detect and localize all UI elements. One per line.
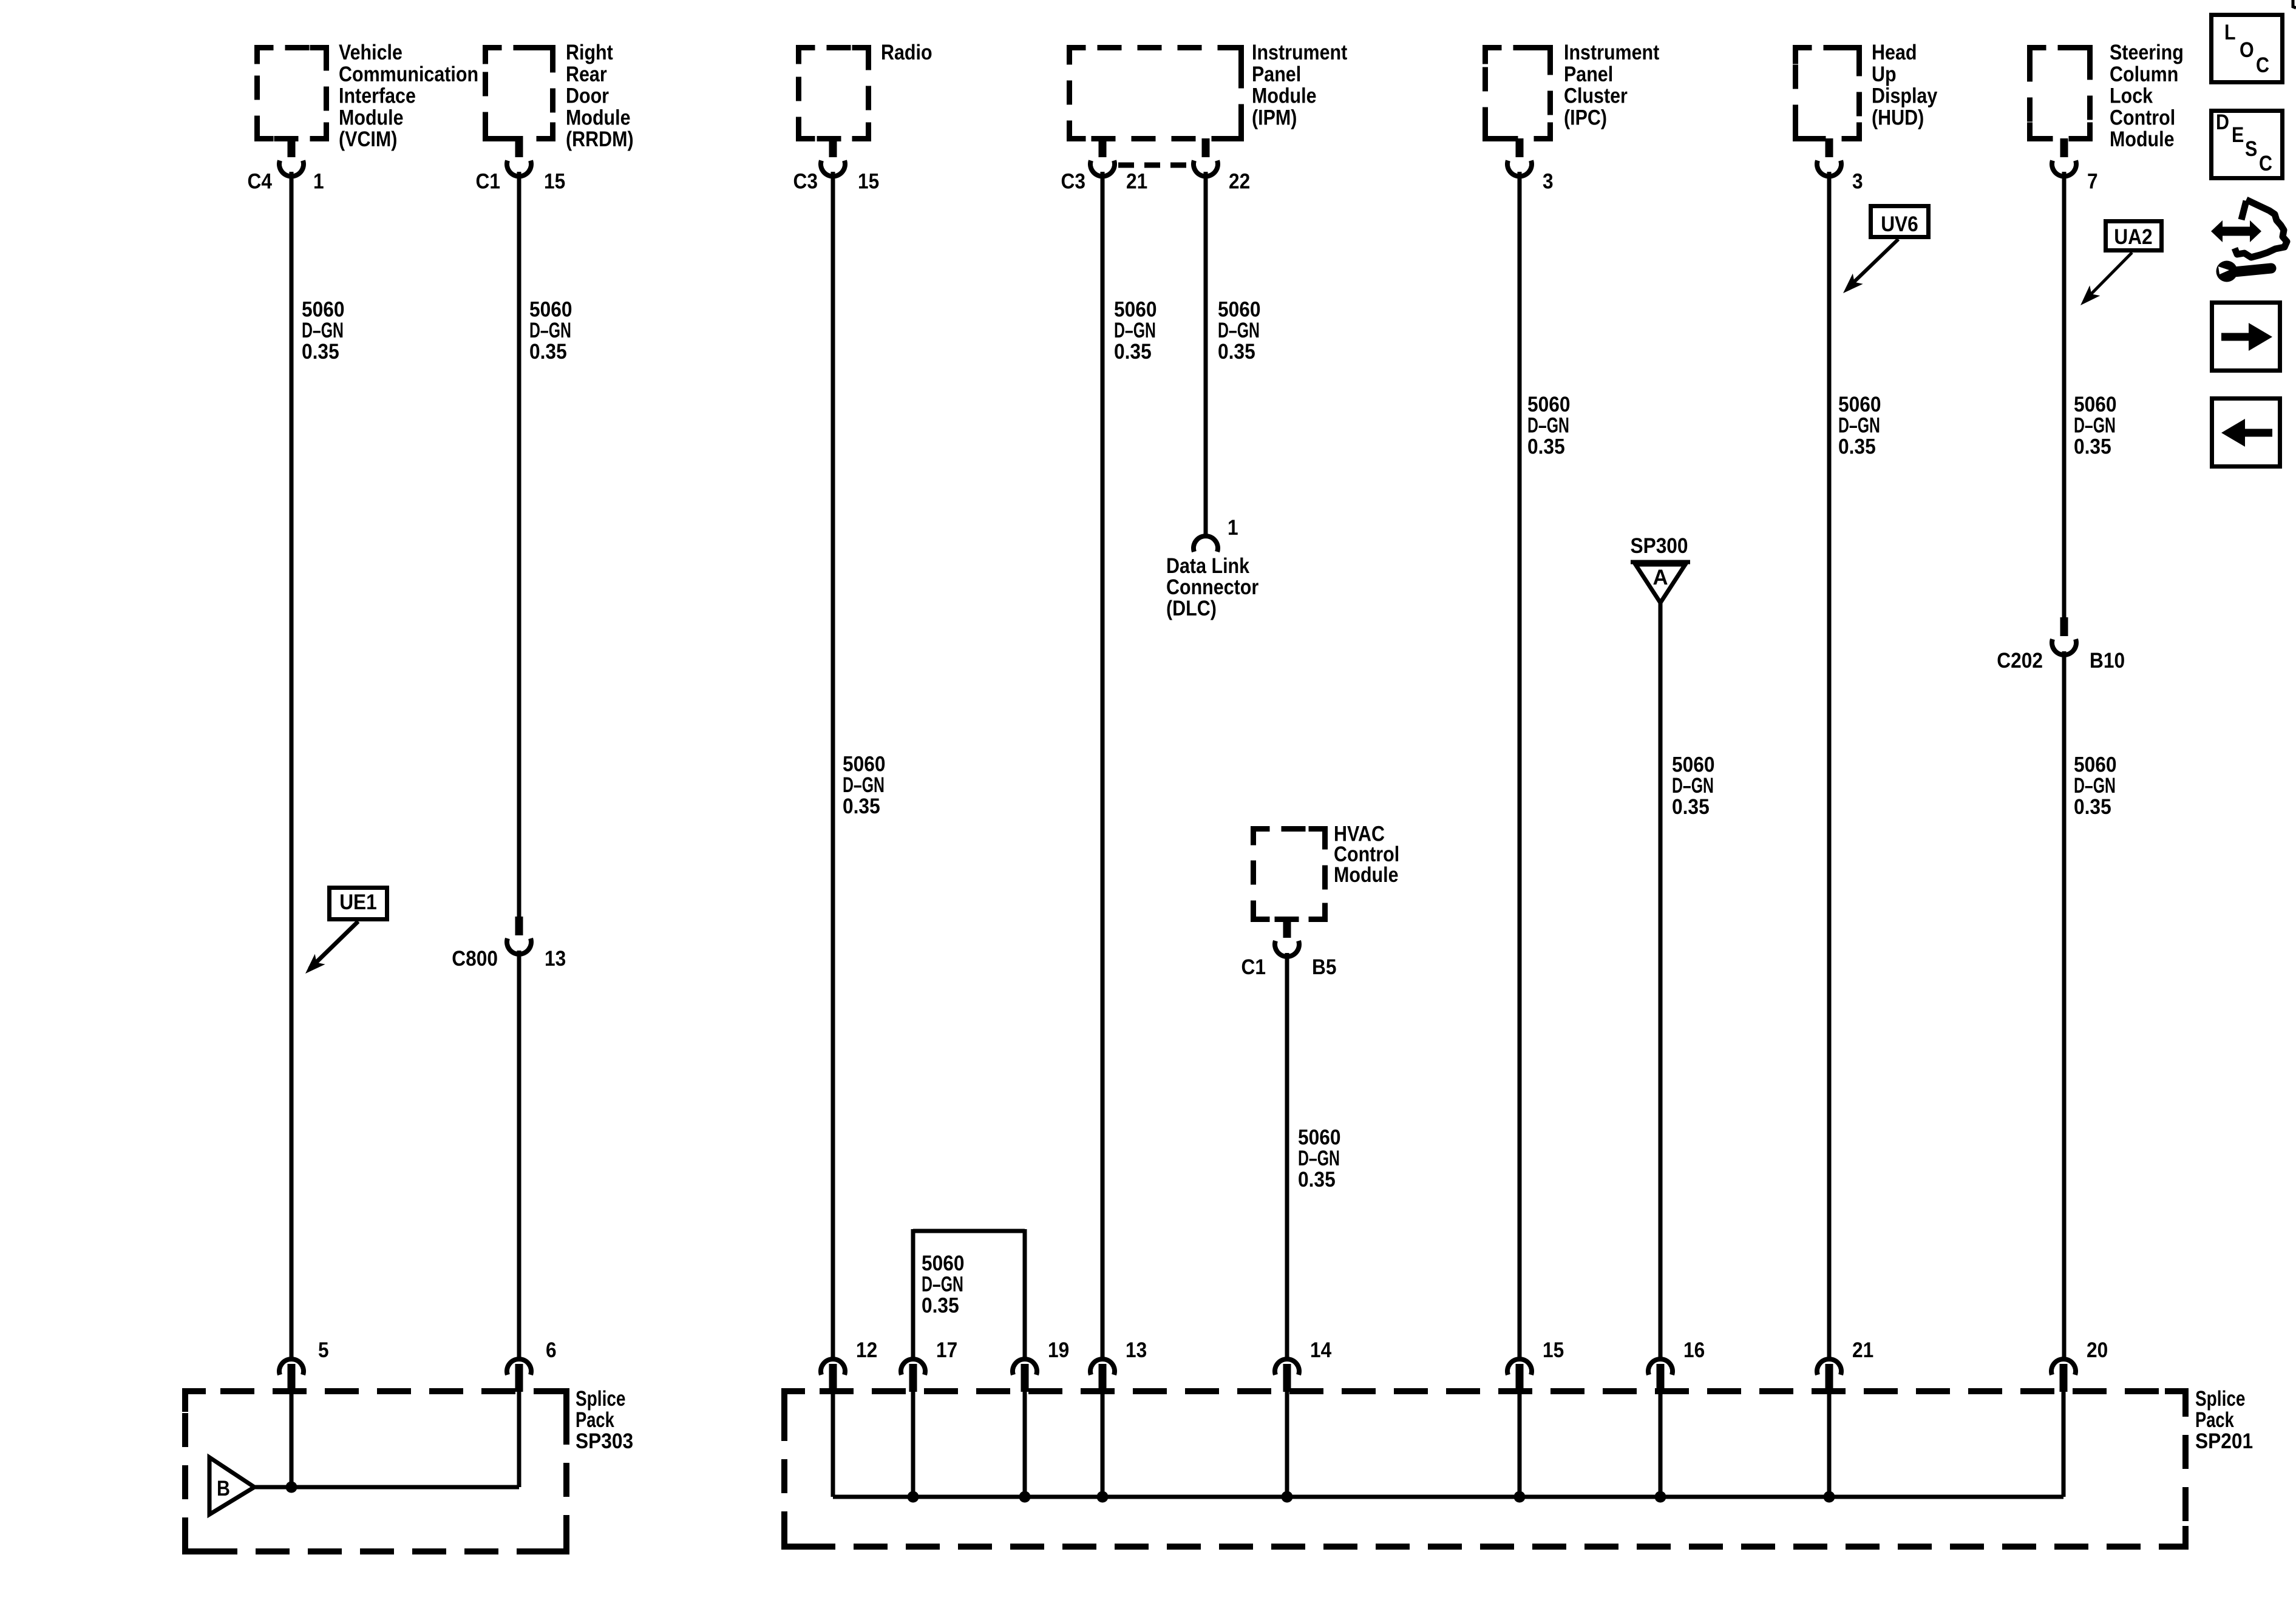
wrench notch: [2218, 266, 2229, 274]
connector stub IPM 22: [1202, 138, 1210, 157]
connector stub SCLCM 7: [2060, 138, 2068, 157]
svg-text:0.35: 0.35: [843, 795, 880, 818]
arrow UV6: [1847, 239, 1898, 288]
connector stub SP201 pin 17: [909, 1364, 917, 1392]
junction SP201 bus at x=3013: [1824, 1491, 1835, 1503]
svg-text:5060: 5060: [1114, 298, 1157, 322]
module box Radio (dashed): [799, 48, 869, 139]
wire Radio to SP201 pin 12: [831, 172, 835, 1358]
double arrow: [2211, 220, 2261, 242]
svg-text:17: 17: [936, 1338, 957, 1362]
svg-text:19: 19: [1048, 1338, 1069, 1362]
svg-text:Pack: Pack: [2195, 1408, 2234, 1432]
svg-text:5060: 5060: [922, 1252, 965, 1275]
svg-text:Splice: Splice: [2195, 1387, 2246, 1411]
module box SCLCM (dashed): [2030, 48, 2090, 139]
svg-text:5060: 5060: [1218, 298, 1261, 322]
svg-text:D–GN: D–GN: [1218, 319, 1260, 342]
svg-text:0.35: 0.35: [1672, 795, 1710, 819]
svg-text:Rear: Rear: [566, 63, 607, 86]
svg-text:C800: C800: [452, 947, 498, 971]
connector stub IPC 3: [1516, 138, 1524, 157]
svg-text:D–GN: D–GN: [1114, 319, 1156, 342]
svg-text:B5: B5: [1312, 955, 1337, 979]
icon box DESC: [2212, 111, 2283, 178]
splice pack SP201 box (dashed): [784, 1391, 2186, 1547]
junction SP201 bus at x=2503: [1514, 1491, 1526, 1503]
page corner mark: [2293, 0, 2296, 8]
connector cup SP303 pin 5: [279, 1359, 304, 1375]
splice bus SP303: [254, 1485, 519, 1490]
connector cup HVAC C1-B5: [1275, 941, 1299, 957]
svg-text:(IPC): (IPC): [1564, 106, 1607, 129]
svg-text:7: 7: [2087, 170, 2098, 194]
splice SP300 triangle: [1631, 560, 1690, 564]
svg-text:0.35: 0.35: [2074, 795, 2111, 819]
svg-text:5060: 5060: [1527, 393, 1571, 416]
svg-text:20: 20: [2087, 1338, 2108, 1362]
svg-text:D–GN: D–GN: [1298, 1147, 1340, 1170]
wire IPC to SP201 pin 15: [1518, 172, 1522, 1358]
svg-text:E: E: [2232, 123, 2244, 147]
svg-text:C1: C1: [1241, 955, 1266, 979]
svg-text:D–GN: D–GN: [2074, 774, 2116, 798]
svg-text:5060: 5060: [843, 753, 886, 776]
connector stub VCIM C4-1: [288, 138, 296, 157]
arrowhead UA2: [2080, 285, 2100, 305]
svg-text:Connector: Connector: [1166, 575, 1259, 599]
module box IPC (dashed): [1486, 48, 1550, 139]
connector cup IPC 3: [1507, 161, 1532, 177]
svg-text:Module: Module: [1252, 84, 1317, 108]
connector cup Radio C3-15: [821, 161, 845, 177]
svg-text:(VCIM): (VCIM): [339, 127, 397, 151]
svg-text:5060: 5060: [1298, 1126, 1341, 1150]
svg-text:15: 15: [544, 170, 565, 194]
connector cup SP201 pin 21: [1817, 1359, 1841, 1375]
svg-text:0.35: 0.35: [1218, 340, 1255, 364]
connector stub RRDM C1-15: [515, 138, 523, 157]
svg-text:Communication: Communication: [339, 63, 478, 86]
connector cup C800: [507, 938, 531, 954]
svg-text:15: 15: [858, 170, 879, 194]
module box VCIM (dashed): [257, 48, 327, 139]
wire C202 to SP201 pin 20: [2062, 651, 2067, 1358]
svg-text:Column: Column: [2110, 63, 2178, 86]
svg-text:0.35: 0.35: [1298, 1168, 1336, 1192]
callout box UE1: [330, 888, 387, 920]
svg-text:21: 21: [1852, 1338, 1873, 1362]
connector stub SP201 pin 20: [2060, 1364, 2068, 1392]
connector cup IPM C3-21: [1090, 161, 1115, 177]
icon box LOC: [2212, 15, 2283, 83]
svg-text:D–GN: D–GN: [1838, 414, 1880, 438]
svg-text:Interface: Interface: [339, 84, 416, 108]
svg-text:0.35: 0.35: [1838, 435, 1876, 458]
svg-text:Panel: Panel: [1252, 63, 1301, 86]
svg-text:15: 15: [1543, 1338, 1564, 1362]
svg-text:SP201: SP201: [2195, 1429, 2253, 1453]
module box HVAC Control Module (dashed): [1254, 829, 1325, 920]
svg-text:0.35: 0.35: [529, 340, 567, 364]
svg-text:13: 13: [545, 947, 566, 971]
svg-text:Control: Control: [2110, 106, 2175, 129]
svg-text:Lock: Lock: [2110, 84, 2153, 108]
wire pin 17 into SP201: [911, 1392, 915, 1497]
connector cup SP201 pin 19: [1013, 1359, 1037, 1375]
svg-text:D–GN: D–GN: [843, 773, 885, 797]
connector stub HVAC C1-B5: [1283, 919, 1291, 938]
wire pin 13 into SP201: [1101, 1392, 1105, 1497]
right arrow: [2221, 323, 2272, 351]
connector stub SP201 pin 15: [1516, 1364, 1524, 1392]
connector cup SP201 pin 15: [1507, 1359, 1532, 1375]
svg-text:(RRDM): (RRDM): [566, 127, 634, 151]
svg-text:5060: 5060: [2074, 753, 2117, 777]
svg-text:B: B: [217, 1477, 230, 1500]
wire pin 21 into SP201: [1827, 1392, 1832, 1497]
svg-text:D–GN: D–GN: [1527, 414, 1569, 438]
junction SP201 bus at x=1688: [1019, 1491, 1031, 1503]
DLC terminal cup: [1194, 536, 1218, 552]
svg-text:(DLC): (DLC): [1166, 597, 1217, 620]
svg-text:Module: Module: [566, 106, 631, 129]
svg-text:6: 6: [546, 1338, 557, 1362]
connector stub IPM C3-21: [1099, 138, 1107, 157]
connector stub SP201 pin 21: [1826, 1364, 1833, 1392]
junction SP201 bus at x=2735: [1655, 1491, 1666, 1503]
module box IPM (dashed): [1070, 48, 1241, 139]
module box RRDM (dashed): [486, 48, 553, 139]
svg-text:5060: 5060: [302, 298, 345, 322]
svg-text:13: 13: [1126, 1338, 1147, 1362]
wire pin 14 into SP201: [1285, 1392, 1289, 1497]
callout box UV6: [1871, 206, 1929, 237]
svg-text:SP300: SP300: [1630, 534, 1688, 558]
wire loop right to pin 19: [1023, 1229, 1027, 1358]
svg-text:5060: 5060: [529, 298, 572, 322]
svg-text:Display: Display: [1872, 84, 1938, 108]
svg-text:UV6: UV6: [1881, 212, 1918, 236]
splice pack SP303 box (dashed): [185, 1391, 566, 1551]
svg-text:SP303: SP303: [576, 1429, 633, 1453]
svg-text:Up: Up: [1872, 63, 1897, 86]
callout box UA2: [2106, 222, 2162, 251]
svg-text:C3: C3: [1061, 170, 1086, 194]
svg-text:UA2: UA2: [2114, 225, 2152, 249]
svg-text:5060: 5060: [2074, 393, 2117, 416]
svg-text:0.35: 0.35: [2074, 435, 2111, 458]
svg-text:D–GN: D–GN: [529, 319, 571, 342]
connector cup SP201 pin 20: [2051, 1359, 2076, 1375]
connector stub C800: [515, 917, 523, 935]
wire pin 19 into SP201: [1023, 1392, 1027, 1497]
junction SP201 bus at x=1816: [1097, 1491, 1109, 1503]
arrow UE1: [310, 921, 358, 969]
svg-text:Panel: Panel: [1564, 63, 1613, 86]
junction SP303 bus at wire 5: [286, 1482, 297, 1493]
connector stub SP201 pin 16: [1657, 1364, 1665, 1392]
wire SCLCM to C202: [2062, 172, 2067, 617]
junction SP201 bus at x=1504: [908, 1491, 919, 1503]
svg-text:Splice: Splice: [576, 1387, 626, 1411]
connector stub C202: [2060, 617, 2068, 636]
connector stub SP201 pin 14: [1283, 1364, 1291, 1392]
svg-text:UE1: UE1: [339, 890, 377, 914]
svg-text:21: 21: [1126, 170, 1147, 194]
wire RRDM to C800: [517, 172, 521, 917]
svg-text:5060: 5060: [1672, 753, 1715, 777]
svg-text:C4: C4: [248, 170, 273, 194]
svg-text:22: 22: [1229, 170, 1250, 194]
svg-text:Right: Right: [566, 41, 613, 64]
icon hand with double arrow and wrench: [2235, 200, 2287, 257]
connector cup HUD 3: [1817, 161, 1841, 177]
wire C800 to SP303 pin 6: [517, 951, 521, 1358]
connector cup SP303 pin 6: [507, 1359, 531, 1375]
connector cup SP201 pin 16: [1648, 1359, 1673, 1375]
svg-text:Head: Head: [1872, 41, 1917, 64]
svg-text:C: C: [2256, 53, 2269, 77]
wire pin 5 into SP303: [290, 1392, 294, 1487]
connector stub SP201 pin 12: [829, 1364, 837, 1392]
svg-text:1: 1: [313, 170, 324, 194]
svg-text:A: A: [1652, 566, 1668, 589]
wire SP300 to SP201 pin 16: [1659, 603, 1663, 1358]
svg-text:O: O: [2240, 38, 2254, 62]
connector stub SP303 pin 5: [288, 1364, 296, 1392]
wire pin 6 into SP303: [517, 1392, 521, 1487]
wire loop left to pin 17: [911, 1229, 915, 1358]
svg-text:0.35: 0.35: [302, 340, 339, 364]
connector stub Radio C3-15: [829, 138, 837, 157]
wire loop top 17-19: [913, 1229, 1025, 1233]
wire IPM 21 to SP201 pin 13: [1101, 172, 1105, 1358]
svg-text:16: 16: [1683, 1338, 1705, 1362]
connector stub HUD 3: [1826, 138, 1833, 157]
connector stub SP303 pin 6: [515, 1364, 523, 1392]
svg-text:B10: B10: [2090, 649, 2125, 673]
triangle B (SP303 splice): [209, 1457, 254, 1514]
svg-text:Radio: Radio: [881, 41, 932, 64]
svg-text:3: 3: [1852, 170, 1863, 194]
svg-text:Pack: Pack: [576, 1408, 614, 1432]
connector cup SP201 pin 12: [821, 1359, 845, 1375]
svg-text:0.35: 0.35: [1114, 340, 1152, 364]
connector cup SP201 pin 17: [901, 1359, 925, 1375]
svg-text:Instrument: Instrument: [1564, 41, 1660, 64]
svg-text:Steering: Steering: [2110, 41, 2184, 64]
svg-text:C202: C202: [1997, 649, 2043, 673]
icon box arrow right: [2212, 303, 2280, 371]
wire HVAC to SP201 pin 14: [1285, 953, 1289, 1358]
left arrow: [2221, 419, 2272, 447]
svg-text:L: L: [2224, 21, 2236, 44]
svg-text:S: S: [2245, 137, 2257, 161]
svg-text:5: 5: [318, 1338, 329, 1362]
svg-text:D–GN: D–GN: [1672, 774, 1714, 798]
wire pin 15 into SP201: [1518, 1392, 1522, 1497]
connector cup RRDM C1-15: [507, 161, 531, 177]
svg-text:3: 3: [1543, 170, 1554, 194]
connector stub SP201 pin 19: [1021, 1364, 1029, 1392]
svg-text:1: 1: [1228, 516, 1238, 540]
arrowhead UV6: [1843, 274, 1863, 293]
svg-text:D–GN: D–GN: [922, 1273, 963, 1297]
svg-text:Vehicle: Vehicle: [339, 41, 402, 64]
svg-text:D: D: [2216, 110, 2229, 134]
connector cup VCIM C4-1: [279, 161, 304, 177]
icon box arrow left: [2212, 399, 2280, 467]
connector cup IPM 22: [1194, 161, 1218, 177]
svg-text:12: 12: [856, 1338, 877, 1362]
wire pin 12 into SP201: [831, 1392, 835, 1497]
wire pin 16 into SP201: [1659, 1392, 1663, 1497]
svg-text:(IPM): (IPM): [1252, 106, 1297, 129]
svg-text:0.35: 0.35: [922, 1293, 959, 1317]
svg-text:14: 14: [1310, 1338, 1332, 1362]
connector cup SP201 pin 14: [1275, 1359, 1299, 1375]
wrench: [2216, 261, 2272, 282]
svg-text:(HUD): (HUD): [1872, 106, 1924, 129]
arrow UA2: [2085, 253, 2132, 300]
svg-text:0.35: 0.35: [1527, 435, 1565, 458]
module box HUD (dashed): [1796, 48, 1860, 139]
svg-text:Module: Module: [1334, 863, 1399, 887]
svg-text:D–GN: D–GN: [302, 319, 344, 342]
arrowhead UE1: [305, 954, 325, 974]
wire IPM 22 to DLC: [1204, 172, 1208, 537]
svg-text:Door: Door: [566, 84, 609, 108]
svg-text:Instrument: Instrument: [1252, 41, 1348, 64]
svg-text:Module: Module: [339, 106, 404, 129]
svg-text:Module: Module: [2110, 127, 2175, 151]
wire HUD to SP201 pin 21: [1827, 172, 1832, 1358]
svg-text:Data Link: Data Link: [1166, 554, 1250, 578]
connector cup SCLCM 7: [2052, 161, 2076, 177]
dashed link between IPM connectors: [1118, 163, 1190, 168]
wire VCIM to SP303 pin 5: [290, 172, 294, 1358]
connector stub SP201 pin 13: [1099, 1364, 1107, 1392]
svg-text:5060: 5060: [1838, 393, 1881, 416]
junction SP201 bus at x=2120: [1282, 1491, 1293, 1503]
svg-text:Cluster: Cluster: [1564, 84, 1628, 108]
svg-text:D–GN: D–GN: [2074, 414, 2116, 438]
splice bus SP201: [833, 1495, 2063, 1499]
wire pin 20 into SP201: [2062, 1392, 2066, 1497]
svg-text:C1: C1: [476, 170, 501, 194]
connector cup C202: [2052, 639, 2076, 655]
svg-text:C3: C3: [793, 170, 818, 194]
connector cup SP201 pin 13: [1090, 1359, 1115, 1375]
svg-text:C: C: [2259, 152, 2272, 175]
